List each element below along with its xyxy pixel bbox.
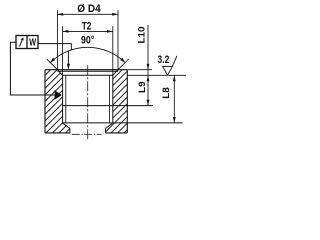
svg-text:3.2: 3.2 [158,54,170,66]
top face [45,69,127,71]
L8 dimension line [173,76,175,123]
arc arrowhead left [50,58,55,63]
top face extension (L10 datum) [127,69,152,71]
thread major left [62,75,64,123]
D4 extension line left [56,10,58,69]
L9 arrowhead at thread depth [147,100,150,106]
thread minor right [109,75,111,123]
L8 arrowhead at seat [173,117,176,123]
seat chamfer right [106,123,113,128]
svg-text:L10: L10 [137,27,147,44]
thread depth mark (L9 line) [63,105,153,107]
D4 arrowhead left [57,13,63,16]
svg-text:Ø D4: Ø D4 [77,3,101,15]
machining symbol in box [20,39,23,47]
svg-text:L9: L9 [137,81,147,93]
svg-text:T2: T2 [82,21,92,33]
thread major right [112,75,114,123]
centerline vertical [87,65,89,139]
svg-text:W: W [29,37,36,49]
block left edge [44,70,46,133]
D4 arrowhead right [112,13,118,16]
chamfer extension left [47,59,57,69]
countersink chamfer left [57,70,62,76]
countersink chamfer right [113,70,118,76]
narrow hole wall right [105,128,107,133]
T2 arrowhead right [107,30,113,33]
D4 extension line right [117,10,119,69]
D4 circle edge [57,70,118,72]
roughness symbol tail [172,56,177,67]
D4 dimension line [57,13,118,15]
L10/L9 dimension line [147,25,149,105]
svg-text:L8: L8 [161,87,171,99]
seat chamfer left [63,123,70,128]
surface symbol frame box [16,36,38,49]
90 degree angle dimension arc [50,47,125,63]
left leader from box to thread flank [10,42,54,95]
narrow hole wall left [69,128,71,133]
right leader from box down to arc [38,44,71,51]
T2 extension line right [112,26,114,75]
T2 extension line left [62,26,64,75]
thread start extension (L9/L8 datum) [128,74,186,76]
frame box divider [26,36,28,49]
T2 dimension line [63,30,113,32]
centerline horizontal (gallery axis) [72,133,102,135]
leader arrowhead at top face [67,64,70,70]
svg-text:90°: 90° [81,34,94,46]
thread start circle [63,74,114,76]
bottom face left [45,132,70,134]
surface roughness triangle symbol [163,67,173,76]
arc arrowhead right [120,58,125,63]
hatching right block [106,70,128,133]
seat line + L8 datum extension [63,122,183,124]
chamfer extension right [118,59,129,70]
bottom face right [106,132,128,134]
hatching left block [45,70,70,133]
leader branch from arc to top face [67,51,69,69]
L8 arrowhead at thread start [173,75,176,81]
filled leader arrowhead at thread wall [55,90,62,100]
thread minor left [65,75,67,123]
L9 arrowhead at thread start [147,75,150,81]
block right edge [126,70,128,133]
L10 arrowhead at top face [147,64,150,70]
T2 arrowhead left [63,30,69,33]
